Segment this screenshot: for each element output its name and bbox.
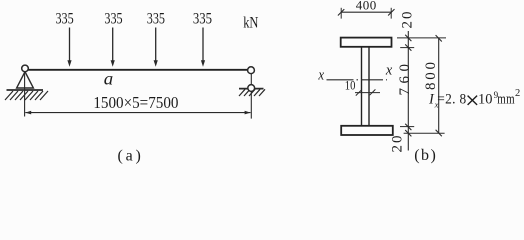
ground line (right) xyxy=(239,88,264,90)
centroid axis x-x xyxy=(327,79,388,81)
formula =2. 8 xyxy=(437,91,466,108)
beam label a xyxy=(104,69,113,89)
svg-text:(a): (a) xyxy=(118,148,144,165)
svg-text:760: 760 xyxy=(397,60,413,96)
pin circle (right) xyxy=(248,67,255,74)
pin support triangle (left) xyxy=(17,72,34,88)
svg-text:335: 335 xyxy=(147,10,165,28)
multiplication sign xyxy=(468,96,478,105)
svg-text:1500×5=7500: 1500×5=7500 xyxy=(93,94,178,112)
bottom flange xyxy=(341,126,393,135)
beam xyxy=(25,69,251,71)
svg-text:mm: mm xyxy=(497,90,515,107)
load arrow P4 xyxy=(201,28,205,67)
flange width dimension line xyxy=(338,8,395,19)
subscript x xyxy=(434,99,439,109)
svg-text:x: x xyxy=(317,68,324,84)
web xyxy=(362,47,370,126)
svg-text:2: 2 xyxy=(515,88,520,99)
dimension text 800 xyxy=(423,59,439,90)
span dimension text 1500×5=7500 xyxy=(93,94,178,112)
roller circle (right) xyxy=(248,85,255,92)
svg-text:335: 335 xyxy=(104,10,122,28)
right dimension chain line xyxy=(405,31,411,151)
left extension line xyxy=(24,72,26,117)
ground hatching (left) xyxy=(5,91,48,100)
axis label x (right) xyxy=(385,62,393,78)
svg-text:x: x xyxy=(385,62,393,78)
span dimension line xyxy=(25,111,250,115)
extension lines (right of section) xyxy=(397,38,446,133)
svg-text:335: 335 xyxy=(193,10,212,28)
axis label x (left) xyxy=(317,68,324,84)
unit label kN xyxy=(243,14,259,32)
svg-text:=2. 8: =2. 8 xyxy=(437,91,466,108)
load label 335 #1 xyxy=(55,10,73,28)
superscript 9 xyxy=(494,90,499,100)
svg-text:kN: kN xyxy=(243,14,259,32)
load arrow P3 xyxy=(154,28,158,67)
load label 335 #2 xyxy=(104,10,122,28)
caption (b) xyxy=(414,147,437,164)
dimension text 20 (bottom) xyxy=(390,134,406,153)
ground line (left) xyxy=(7,89,44,91)
svg-text:20: 20 xyxy=(400,10,416,29)
web thickness dimension line xyxy=(355,89,380,95)
svg-text:(b): (b) xyxy=(414,147,437,164)
load arrow P1 xyxy=(67,28,71,67)
top flange xyxy=(341,38,392,47)
svg-text:335: 335 xyxy=(55,10,73,28)
svg-text:20: 20 xyxy=(390,134,406,153)
dimension text 760 xyxy=(397,60,413,96)
svg-text:a: a xyxy=(104,69,113,89)
svg-text:10: 10 xyxy=(345,77,356,92)
web thickness text 10 xyxy=(345,77,356,92)
svg-text:10: 10 xyxy=(478,91,492,107)
superscript 2 xyxy=(515,88,520,99)
unit mm xyxy=(497,90,515,107)
formula 10 xyxy=(478,91,492,107)
right support vertical link / extension line xyxy=(250,74,252,119)
caption (a) xyxy=(118,148,144,165)
load label 335 #4 xyxy=(193,10,212,28)
flange width text 400 xyxy=(356,0,377,13)
pin support circle (left) xyxy=(22,65,29,72)
dimension text 20 (top) xyxy=(400,10,416,29)
svg-text:400: 400 xyxy=(356,0,377,13)
load label 335 #3 xyxy=(147,10,165,28)
svg-text:800: 800 xyxy=(423,59,439,90)
overall height dimension line 800 xyxy=(436,35,442,136)
moment of inertia label I xyxy=(428,91,435,107)
load arrow P2 xyxy=(111,28,115,67)
ground hatching (right) xyxy=(239,89,265,96)
